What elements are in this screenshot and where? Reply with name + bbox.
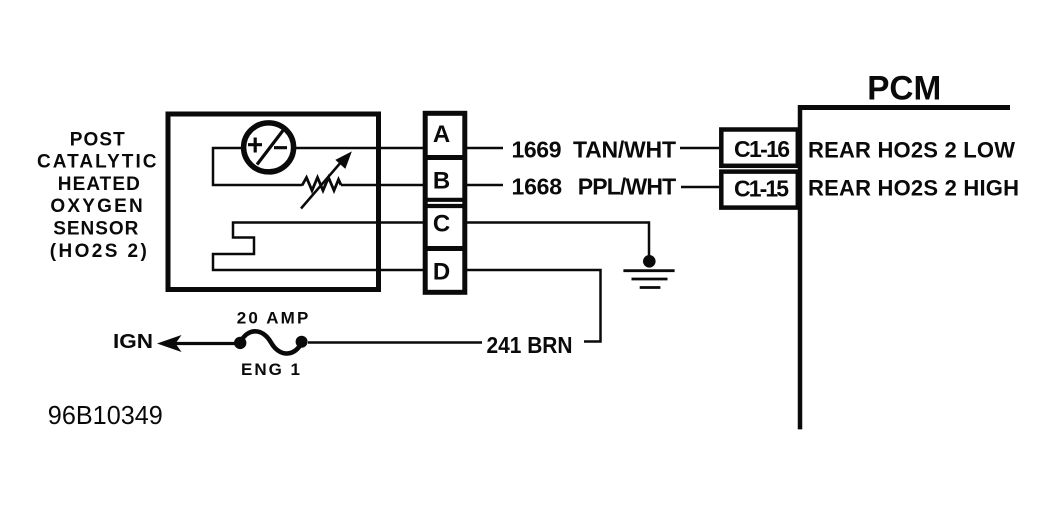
svg-text:REAR HO2S 2 HIGH: REAR HO2S 2 HIGH (808, 176, 1019, 201)
svg-text:OXYGEN: OXYGEN (50, 196, 142, 217)
svg-text:D: D (433, 259, 450, 286)
svg-text:HEATED: HEATED (58, 174, 140, 195)
svg-text:C1-15: C1-15 (734, 175, 789, 201)
svg-text:CATALYTIC: CATALYTIC (37, 152, 157, 173)
svg-text:PCM: PCM (867, 70, 941, 108)
svg-text:POST: POST (70, 129, 125, 150)
svg-text:1668: 1668 (512, 174, 563, 200)
svg-text:1669: 1669 (512, 137, 562, 163)
svg-text:PPL/WHT: PPL/WHT (578, 174, 677, 200)
svg-text:(HO2S 2): (HO2S 2) (50, 241, 147, 262)
svg-text:TAN/WHT: TAN/WHT (573, 137, 676, 163)
svg-text:C1-16: C1-16 (734, 136, 790, 162)
svg-text:A: A (433, 121, 450, 148)
svg-text:SENSOR: SENSOR (53, 219, 138, 240)
svg-text:ENG 1: ENG 1 (241, 360, 300, 379)
svg-text:REAR HO2S 2 LOW: REAR HO2S 2 LOW (808, 138, 1015, 163)
svg-text:96B10349: 96B10349 (48, 400, 163, 430)
svg-text:IGN: IGN (113, 331, 153, 353)
svg-text:20 AMP: 20 AMP (237, 309, 308, 328)
svg-text:241 BRN: 241 BRN (487, 332, 573, 358)
svg-text:C: C (433, 211, 450, 238)
svg-text:B: B (433, 168, 450, 195)
